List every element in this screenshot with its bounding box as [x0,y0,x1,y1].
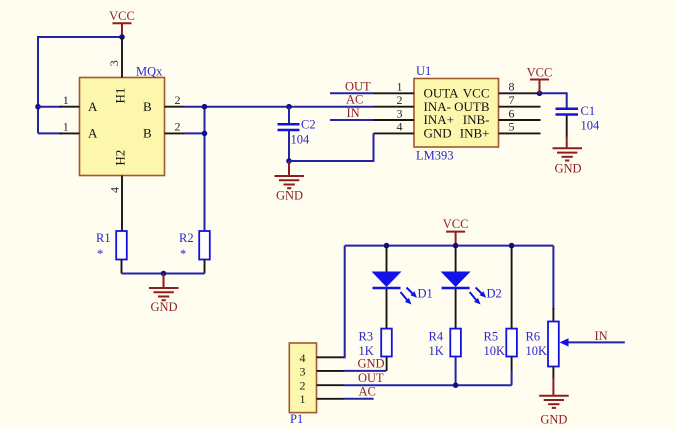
svg-text:1: 1 [397,80,403,94]
svg-text:C1: C1 [581,104,596,118]
svg-text:B: B [143,126,152,141]
pin 2 (MQx B2) [165,120,185,134]
junction R4/OUT [453,382,459,388]
svg-text:GND: GND [276,189,303,203]
pin 6 U1 [499,106,541,120]
svg-text:R3: R3 [359,330,374,344]
pin 1 (MQx A2) [60,120,80,134]
svg-text:IN: IN [595,329,608,343]
pin 2 (MQx B1) [165,93,185,107]
svg-text:104: 104 [291,133,311,147]
wire AC net [344,398,374,400]
svg-text:2: 2 [300,379,306,393]
ground GND (below R6) [539,378,569,427]
svg-text:GND: GND [150,300,177,314]
pin 2 P1 [317,384,345,386]
svg-text:7: 7 [509,93,515,107]
wire IN to R6 wiper [568,341,625,343]
svg-text:8: 8 [509,80,515,94]
svg-text:1K: 1K [429,344,444,358]
pin 5 U1 [499,120,541,134]
svg-text:VCC: VCC [527,66,553,80]
wire OUT net [344,357,512,386]
junction at VCC / pin 3 [119,34,125,40]
svg-text:H1: H1 [113,88,128,104]
wire P1 pin4 to VCC rail [344,246,345,358]
svg-text:AC: AC [346,93,363,107]
pin 1 U1 [374,80,415,94]
wire vertical to R2 [204,107,206,231]
junction at C2 top [286,104,292,110]
svg-text:A: A [88,126,98,141]
svg-text:1: 1 [300,392,306,406]
svg-text:H2: H2 [113,150,128,166]
svg-text:R5: R5 [484,330,499,344]
pin 4 U1 [374,120,415,134]
svg-text:*: * [180,247,186,261]
LED D1 [372,246,433,329]
wire to pin A2 [38,132,62,134]
pin 1 (MQx A1) [60,93,80,107]
svg-text:4: 4 [300,351,306,365]
wire R1-R2 bottoms [122,273,205,275]
svg-text:104: 104 [581,119,601,133]
connector P1 body [289,343,316,426]
power port VCC (top left) [109,9,135,37]
junction at C2 bottom [286,158,292,164]
svg-text:GND: GND [424,126,452,141]
LED D2 [441,246,502,329]
junction R5 [509,243,515,249]
svg-text:5: 5 [509,120,515,134]
svg-text:2: 2 [175,120,181,134]
wire GND net to R3 [344,357,387,371]
pin 3 (MQx top) [107,37,122,78]
wire top-left rail [38,37,122,133]
svg-text:VCC: VCC [109,9,135,23]
ground GND (below C2) [275,161,305,203]
svg-text:D2: D2 [487,287,502,301]
svg-text:OUT: OUT [358,371,384,385]
net label IN (U1 pin3) [330,106,374,120]
junction VCC/D2 [453,243,459,249]
svg-text:1: 1 [63,93,69,107]
svg-text:4: 4 [107,187,121,193]
wire rail to R6 [552,246,554,310]
svg-text:R2: R2 [179,231,194,245]
svg-text:IN: IN [347,106,360,120]
junction at GND [161,271,167,277]
pin 8 U1 [499,80,541,94]
junction D1 [384,243,390,249]
svg-text:LM393: LM393 [416,149,454,163]
junction B row1 [202,104,208,110]
pin 2 U1 [374,93,415,107]
wire net B row2 [185,132,205,134]
svg-text:3: 3 [107,60,121,66]
svg-text:A: A [88,99,98,114]
resistor R1 [96,231,127,274]
resistor R5 [484,246,517,371]
wire pin8 to C1 [538,93,567,107]
wire C2 bottom to U1 pin4 [289,133,374,161]
pin 7 U1 [499,93,541,107]
svg-text:3: 3 [397,106,403,120]
ground GND (below R1/R2) [149,274,179,315]
svg-text:R4: R4 [429,330,444,344]
svg-text:C2: C2 [301,118,316,132]
svg-text:6: 6 [509,106,515,120]
potentiometer R6 [526,308,569,379]
svg-text:INB+: INB+ [460,126,490,141]
wire VCC rail (bottom) [345,245,554,247]
svg-text:MQx: MQx [136,65,163,79]
resistor R2 [179,231,210,274]
pin 3 U1 [374,106,415,120]
svg-text:2: 2 [397,93,403,107]
svg-text:OUT: OUT [345,79,371,93]
svg-text:AC: AC [359,385,376,399]
svg-text:GND: GND [540,413,567,427]
svg-text:10K: 10K [484,344,506,358]
pin 3 P1 [317,370,345,372]
svg-text:4: 4 [397,120,403,134]
wire to pin A1 [38,106,62,108]
junction B row2 [202,131,208,137]
svg-text:R1: R1 [96,231,111,245]
power port VCC (right) [527,66,553,94]
resistor R4 [429,329,461,358]
junction pin8/VCC [537,91,543,97]
resistor R3 [359,329,392,358]
svg-text:VCC: VCC [443,217,469,231]
capacitor C1 [556,104,601,137]
svg-text:GND: GND [554,161,581,175]
junction node left rail / pin A1 [35,104,41,110]
sensor MQx body [80,65,165,176]
svg-text:D1: D1 [418,287,433,301]
net label OUT (U1 pin1) [330,79,374,93]
pin 4 (MQx bottom) [107,176,122,232]
svg-text:10K: 10K [526,344,548,358]
op-amp U1 LM393 body [414,64,499,163]
svg-text:U1: U1 [416,64,431,78]
svg-text:1: 1 [63,120,69,134]
pin 1 P1 [317,398,345,400]
svg-text:2: 2 [175,93,181,107]
pin 4 P1 [317,356,345,358]
svg-text:3: 3 [300,364,306,378]
svg-text:B: B [143,99,152,114]
svg-text:GND: GND [358,357,385,371]
capacitor C2 [278,107,316,161]
svg-text:P1: P1 [290,412,303,426]
wire net B row1 to U1 pin2 [185,106,374,108]
power port VCC (bottom section) [443,217,469,245]
svg-text:*: * [97,247,103,261]
ground GND (below C1) [553,136,583,175]
svg-text:R6: R6 [526,330,541,344]
